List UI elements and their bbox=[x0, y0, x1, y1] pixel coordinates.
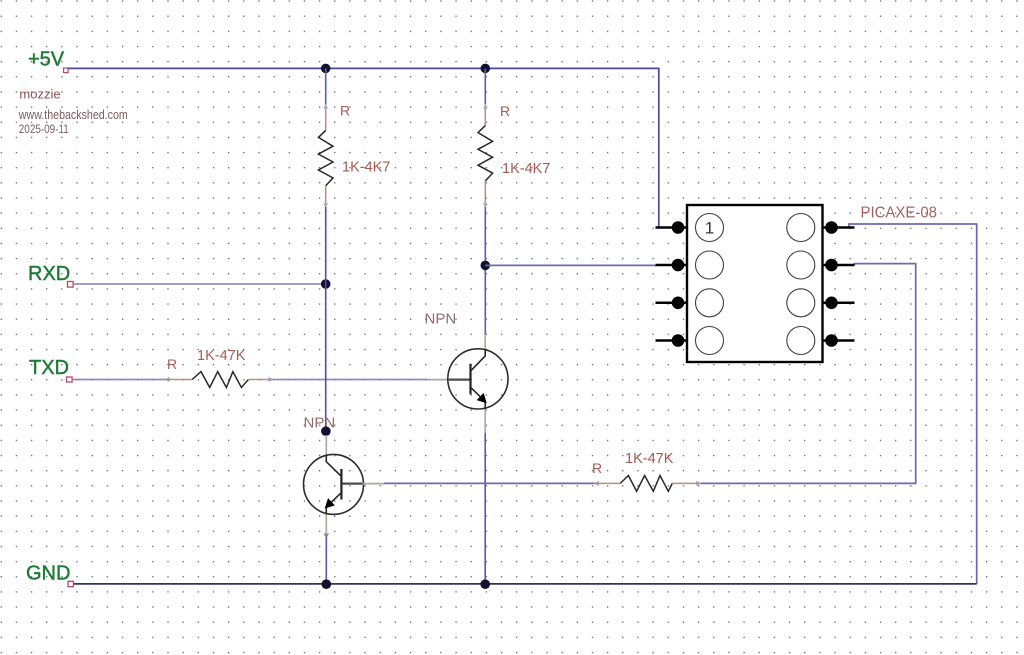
label R2 value 1K-4K7 bbox=[502, 161, 550, 177]
wire vertical net1 top (R1 top lead) bbox=[325, 68, 327, 105]
port +5V bbox=[64, 68, 69, 73]
label PICAXE-08 bbox=[861, 205, 938, 222]
wire Q1 emitter to GND bbox=[484, 433, 486, 585]
port RXD bbox=[68, 282, 74, 288]
wire RXD bbox=[74, 283, 326, 285]
svg-text:1K-47K: 1K-47K bbox=[625, 451, 674, 467]
label R1 designator bbox=[340, 103, 350, 119]
label R2 designator bbox=[500, 103, 510, 119]
pin circle 2 bbox=[696, 251, 724, 279]
svg-text:+5V: +5V bbox=[28, 49, 65, 71]
op-amp U1 PICAXE-08 body bbox=[687, 205, 823, 362]
pin circle 6 bbox=[787, 289, 815, 317]
wire GND bbox=[74, 583, 977, 585]
wire Q2 emitter to GND bbox=[325, 537, 327, 585]
junction GND / Q1 emitter bbox=[480, 579, 490, 589]
label R3 value 1K-47K bbox=[197, 348, 246, 364]
node TXD label bbox=[29, 357, 69, 379]
wire net2 middle (R2 to pin2 and Q1 collector) bbox=[484, 207, 486, 335]
svg-text:R: R bbox=[500, 103, 510, 119]
wire pin2L to net2 bbox=[485, 264, 657, 266]
svg-text:2025-09-11: 2025-09-11 bbox=[19, 124, 69, 136]
junction +5V / R1 bbox=[321, 64, 331, 74]
junction +5V / R2 bbox=[481, 64, 491, 74]
wire net1 middle (R1 to Q2 collector) bbox=[325, 207, 327, 431]
pin 7 stub bbox=[823, 259, 855, 272]
label R4 value 1K-47K bbox=[625, 451, 674, 467]
title text mozzie bbox=[19, 87, 60, 102]
svg-text:R: R bbox=[340, 103, 350, 119]
svg-text:GND: GND bbox=[26, 563, 70, 585]
wire Q2 base to R4 bbox=[384, 482, 595, 484]
resistor R2 1K-4K7 (right vertical) bbox=[478, 104, 493, 209]
pin 3 stub bbox=[656, 297, 688, 310]
title text url bbox=[18, 107, 128, 122]
svg-text:RXD: RXD bbox=[28, 263, 70, 285]
wire TXD left bbox=[73, 379, 166, 381]
pin circle 3 bbox=[696, 289, 724, 317]
transistor Q2 NPN (bottom) bbox=[304, 435, 364, 539]
label R1 value 1K-4K7 bbox=[342, 160, 390, 176]
wire TXD right to Q1 base bbox=[273, 379, 428, 381]
port TXD bbox=[67, 377, 73, 382]
lead Q2 base right bbox=[363, 483, 385, 485]
svg-text:1K-47K: 1K-47K bbox=[197, 348, 246, 364]
pin 1 stub bbox=[656, 221, 688, 234]
svg-text:R: R bbox=[167, 356, 177, 372]
pin 8 stub bbox=[823, 221, 855, 234]
label NPN Q1 bbox=[425, 311, 457, 328]
lead Q1 base bbox=[428, 379, 449, 381]
svg-text:1K-4K7: 1K-4K7 bbox=[342, 160, 390, 176]
transistor Q1 NPN (top) bbox=[448, 334, 508, 433]
junction net2 / pin2 wire bbox=[481, 261, 491, 271]
port GND bbox=[68, 581, 73, 586]
svg-text:mozzie: mozzie bbox=[19, 87, 60, 102]
label R3 designator bbox=[167, 356, 177, 372]
node RXD label bbox=[28, 263, 70, 285]
wire +5V horizontal bbox=[68, 68, 659, 227]
pin circle 8 bbox=[787, 214, 815, 242]
pin circle 1 bbox=[696, 214, 724, 242]
svg-text:NPN: NPN bbox=[304, 415, 336, 432]
svg-text:1K-4K7: 1K-4K7 bbox=[502, 161, 550, 177]
pin 5 stub bbox=[823, 334, 855, 347]
pin 4 stub bbox=[656, 334, 688, 347]
junction RXD / vertical bbox=[321, 279, 331, 289]
resistor R1 1K-4K7 (left vertical) bbox=[318, 104, 333, 209]
node +5V label bbox=[28, 49, 65, 71]
pin circle 5 bbox=[787, 327, 815, 355]
label R4 designator bbox=[592, 460, 602, 476]
node GND label bbox=[26, 563, 70, 585]
svg-text:www.thebackshed.com: www.thebackshed.com bbox=[18, 107, 128, 122]
wire R4 to pin7 bbox=[701, 264, 916, 484]
junction Q2 collector bbox=[321, 426, 331, 436]
svg-text:R: R bbox=[592, 460, 602, 476]
pin circle 4 bbox=[696, 327, 724, 355]
junction GND / Q2 emitter bbox=[322, 579, 332, 589]
title text date bbox=[19, 124, 69, 136]
svg-text:TXD: TXD bbox=[29, 357, 69, 379]
wire vertical net2 top (R2 top lead) bbox=[484, 68, 486, 105]
resistor R3 1K-47K (TXD series) bbox=[165, 372, 274, 388]
wire pin8 to right rail bbox=[849, 224, 977, 584]
pin 6 stub bbox=[823, 297, 855, 310]
svg-text:NPN: NPN bbox=[425, 311, 457, 328]
resistor R4 1K-47K (base series) bbox=[594, 476, 701, 492]
svg-text:1: 1 bbox=[705, 219, 714, 238]
pin 2 stub bbox=[656, 259, 688, 272]
label NPN Q2 bbox=[304, 415, 336, 432]
pin circle 7 bbox=[787, 251, 815, 279]
svg-text:PICAXE-08: PICAXE-08 bbox=[861, 205, 938, 222]
